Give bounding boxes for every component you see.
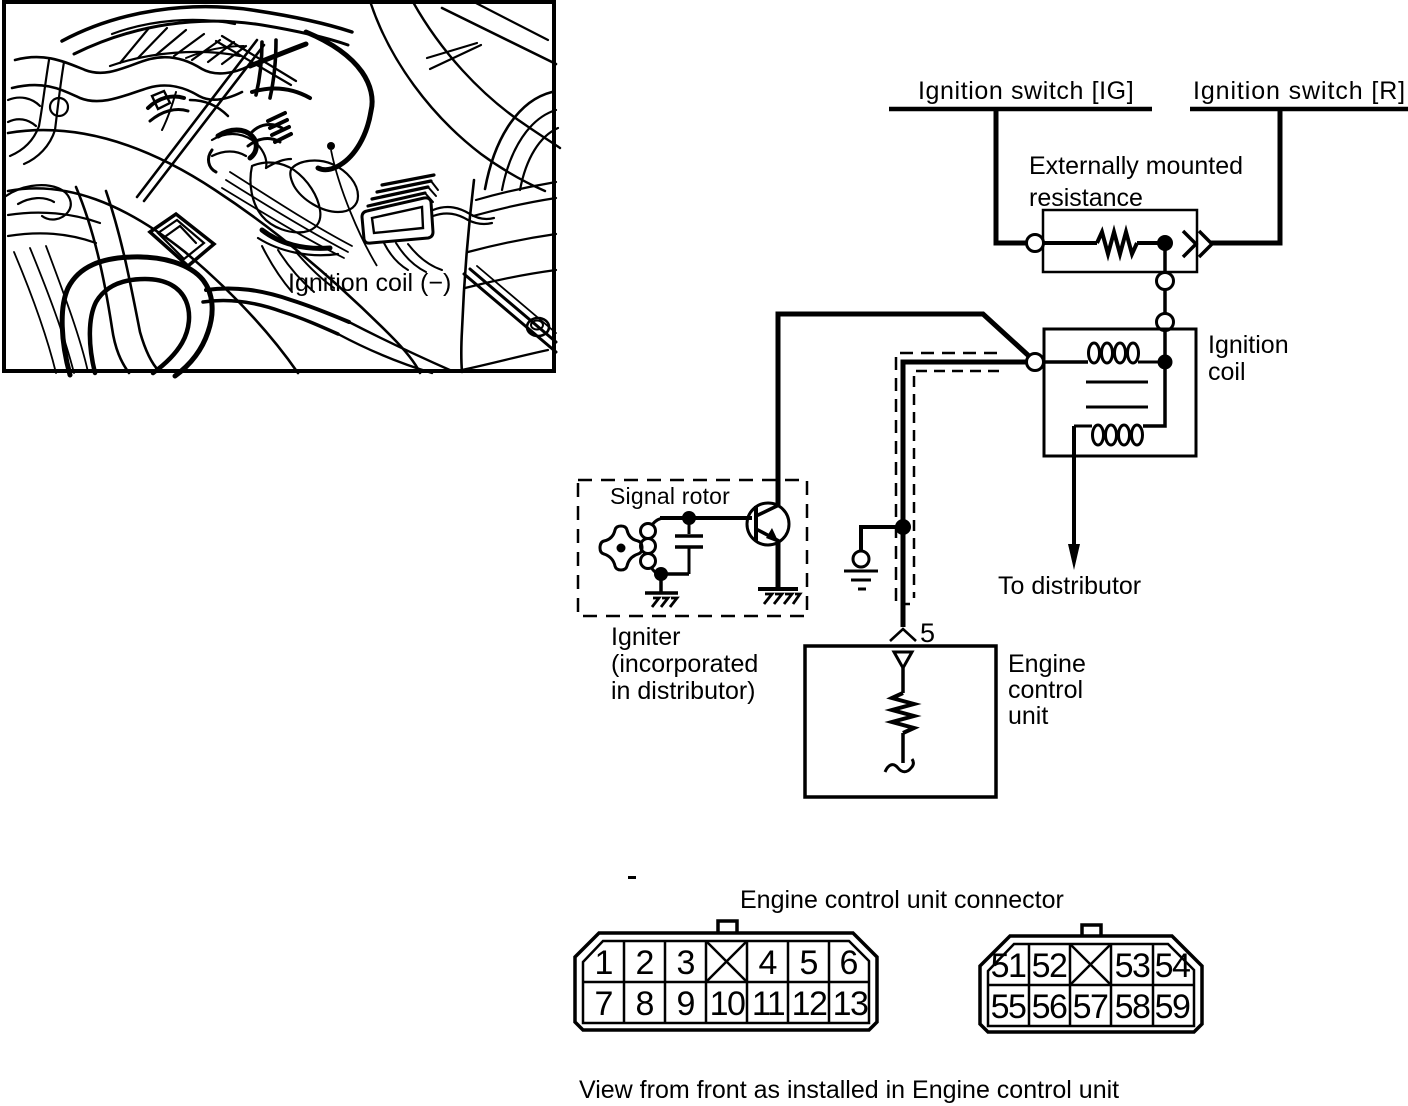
- hood line right of band: [442, 8, 556, 64]
- cylinder left edge: [461, 180, 474, 372]
- svg-text:control: control: [1008, 676, 1083, 704]
- horseshoe hose outer: [62, 257, 212, 376]
- left horizontal band low: [8, 213, 100, 223]
- cylinder top arcs: [485, 92, 552, 189]
- resistor in ECU vertical zigzag: [892, 693, 914, 733]
- hood arc upper: [62, 7, 352, 41]
- junction dot at capacitor top: [682, 511, 696, 525]
- svg-text:10: 10: [710, 985, 745, 1023]
- svg-text:View from front as installed i: View from front as installed in Engine c…: [579, 1076, 1119, 1104]
- junction dot shield ground: [895, 519, 911, 535]
- wire primary junction down to secondary: [1143, 362, 1165, 426]
- engine control unit box: [805, 646, 996, 797]
- transistor base bar: [754, 506, 758, 541]
- wire resistor to junction: [1137, 241, 1165, 245]
- leader line: [331, 150, 377, 266]
- wide band left edge: [371, 4, 545, 191]
- pin 5 chevron: [890, 629, 916, 641]
- cross tube right edge: [106, 191, 159, 371]
- CONNECTORS: [575, 876, 1202, 1104]
- wire into resistor: [1043, 241, 1097, 245]
- svg-text:59: 59: [1155, 988, 1190, 1026]
- svg-text:6: 6: [840, 944, 859, 982]
- fins block face: [362, 198, 433, 243]
- capacitor C1: [661, 518, 703, 574]
- resistor box (externally mounted resistance): [1043, 210, 1197, 272]
- svg-text:Ignition coil (−): Ignition coil (−): [288, 269, 451, 297]
- node Ignition switch R bus: [1190, 107, 1408, 112]
- cross brace pair: [216, 41, 291, 85]
- earth ground: [844, 571, 878, 589]
- distributor blob: [250, 163, 320, 233]
- junction dot coil primary: [1158, 355, 1173, 370]
- rotor center dot: [617, 544, 626, 553]
- svg-text:Ignition switch [R]: Ignition switch [R]: [1193, 77, 1406, 105]
- arrowhead to distributor: [1068, 544, 1080, 570]
- plug wires below cluster: [262, 246, 292, 292]
- svg-text:in distributor): in distributor): [611, 677, 756, 705]
- hook tube center: [218, 130, 256, 158]
- illustration frame: [4, 2, 554, 371]
- wires right of fins: [433, 207, 494, 219]
- coil secondary winding: [1074, 425, 1151, 445]
- diagonal continuation to corner: [349, 322, 452, 371]
- resistor R1 zigzag: [1097, 232, 1137, 254]
- bottom arc: [462, 350, 548, 370]
- wire coil secondary to distributor: [1072, 426, 1076, 546]
- svg-text:53: 53: [1115, 947, 1150, 985]
- strut double line: [137, 40, 257, 197]
- horseshoe hose inner: [90, 279, 189, 373]
- ground igniter 1: [645, 593, 678, 607]
- big hose upper edge: [8, 130, 420, 373]
- transistor emitter stroke: [756, 529, 779, 541]
- ribbed bolt: [268, 113, 285, 121]
- svg-text:coil: coil: [1208, 358, 1246, 386]
- fins: [368, 193, 425, 206]
- svg-text:55: 55: [991, 988, 1026, 1026]
- igniter dashed box: [578, 480, 807, 616]
- connector A inner grid: [583, 941, 869, 1023]
- wire from R switch down to resistor output: [1210, 111, 1280, 243]
- svg-text:56: 56: [1032, 988, 1067, 1026]
- connector B pin numbers row 2: [991, 988, 1190, 1026]
- wire terminal to primary winding: [1044, 360, 1088, 364]
- valve cover wave top: [15, 57, 249, 73]
- wire to igniter ground 1: [659, 574, 663, 593]
- wire shielded signal from coil negative: [903, 362, 1027, 627]
- ECU input triangle: [894, 652, 912, 668]
- wavy hose pair right of horseshoe: [206, 288, 349, 322]
- ILLUSTRATION: [4, 2, 560, 376]
- connector chevrons on wire: [1183, 231, 1196, 257]
- wire from IG switch to resistor: [996, 111, 1026, 243]
- wires below fins: [384, 243, 408, 270]
- ground terminal circle: [853, 551, 869, 567]
- wire to ground circle: [861, 527, 903, 551]
- coil primary winding: [1089, 343, 1159, 363]
- svg-text:9: 9: [677, 985, 696, 1023]
- connector A pin numbers row 2: [595, 985, 868, 1023]
- coil core lines: [1086, 381, 1148, 384]
- svg-text:resistance: resistance: [1029, 184, 1143, 212]
- connector B tab: [1082, 925, 1101, 935]
- svg-text:5: 5: [920, 618, 935, 648]
- wire signal from igniter top run: [778, 314, 1030, 506]
- svg-text:unit: unit: [1008, 702, 1048, 730]
- svg-text:Ignition switch [IG]: Ignition switch [IG]: [918, 77, 1134, 105]
- svg-text:Engine: Engine: [1008, 650, 1086, 678]
- small ring: [50, 98, 68, 116]
- connector circle upper: [1157, 273, 1174, 290]
- wire emitter to ground 2: [776, 540, 781, 589]
- connector B outer outline: [980, 936, 1202, 1032]
- relay box step: [166, 226, 196, 243]
- big hose lower edge: [8, 188, 298, 373]
- relay box inner: [158, 220, 204, 259]
- shield dashed inner: [914, 371, 999, 598]
- cylinder ring arcs: [476, 182, 556, 200]
- signal rotor 4-lobed star: [600, 526, 642, 570]
- connector B pin numbers row 1: [991, 947, 1190, 985]
- svg-text:(incorporated: (incorporated: [611, 650, 758, 678]
- shield dashed outer: [896, 353, 997, 604]
- bolt circle: [527, 318, 549, 336]
- wire inside coil from top: [1163, 330, 1167, 365]
- connector A pin numbers row 1: [595, 944, 859, 982]
- emitter arrowhead: [766, 528, 779, 543]
- leader dot: [327, 142, 335, 150]
- transistor collector stroke: [756, 505, 779, 516]
- louver band top: [112, 20, 235, 34]
- svg-text:12: 12: [792, 985, 827, 1023]
- junction dot at coil bottom: [654, 567, 668, 581]
- coil tower tubes: [256, 42, 262, 95]
- svg-text:2: 2: [636, 944, 655, 982]
- svg-text:To distributor: To distributor: [998, 572, 1141, 600]
- svg-text:Igniter: Igniter: [611, 623, 680, 651]
- svg-text:54: 54: [1155, 947, 1190, 985]
- svg-text:Engine control unit connector: Engine control unit connector: [740, 886, 1064, 914]
- wire triangle to resistor: [901, 668, 905, 693]
- hood arc lower: [74, 21, 348, 54]
- svg-text:51: 51: [991, 947, 1026, 985]
- ignition coil box: [1044, 329, 1196, 456]
- svg-text:58: 58: [1115, 988, 1150, 1026]
- diagonal hose over cylinder: [464, 274, 556, 352]
- svg-text:11: 11: [752, 985, 785, 1023]
- coil body left links: [250, 44, 306, 66]
- svg-text:8: 8: [636, 985, 655, 1023]
- node Ignition switch IG bus: [889, 107, 1152, 112]
- svg-text:57: 57: [1073, 988, 1108, 1026]
- pickup coil: [641, 518, 666, 574]
- svg-text:7: 7: [595, 985, 614, 1023]
- svg-text:13: 13: [833, 985, 868, 1023]
- fins block inner: [372, 207, 423, 233]
- hook tube top-left: [6, 185, 71, 219]
- wide band right edge: [413, 2, 560, 148]
- terminal circle coil negative: [1027, 354, 1044, 371]
- svg-text:5: 5: [800, 944, 819, 982]
- stray dash mark: [628, 876, 636, 879]
- wire junction down to ignition coil: [1163, 243, 1167, 332]
- svg-text:4: 4: [759, 944, 778, 982]
- svg-text:Externally mounted: Externally mounted: [1029, 152, 1243, 180]
- wire pickup coil to transistor base: [660, 516, 752, 520]
- distributor base thick edge: [262, 230, 330, 248]
- connector A tab: [718, 921, 737, 932]
- thin fan lines: [14, 252, 56, 373]
- mid-left bracket cluster: [148, 96, 184, 108]
- connector circle lower: [1157, 314, 1174, 331]
- sweeping parallel lines: [230, 172, 352, 246]
- tube cluster mid: [212, 134, 266, 168]
- coil body thick outline: [306, 32, 372, 170]
- left fitting: [8, 98, 40, 106]
- transistor Q1: [747, 503, 789, 545]
- louver band bottom: [110, 52, 240, 66]
- svg-text:Ignition: Ignition: [1208, 331, 1289, 359]
- svg-text:1: 1: [595, 944, 614, 982]
- egg outline: [290, 161, 358, 212]
- connector A outer outline: [575, 933, 877, 1030]
- svg-text:Signal rotor: Signal rotor: [610, 483, 730, 509]
- squiggle termination in ECU: [885, 759, 913, 772]
- terminal circle at resistor input: [1027, 235, 1044, 252]
- left tube edges: [10, 60, 49, 156]
- junction dot at resistor output: [1157, 235, 1173, 251]
- svg-text:52: 52: [1032, 947, 1067, 985]
- louver ribs: [120, 28, 149, 63]
- valve cover wave bottom: [12, 85, 242, 101]
- band crossbars: [427, 43, 477, 58]
- svg-text:3: 3: [677, 944, 696, 982]
- connector B inner grid: [988, 944, 1194, 1026]
- ground igniter 2: [758, 589, 800, 604]
- relay box outer: [150, 214, 214, 266]
- wire below ECU resistor: [901, 733, 905, 763]
- cross tube left edge: [76, 187, 129, 373]
